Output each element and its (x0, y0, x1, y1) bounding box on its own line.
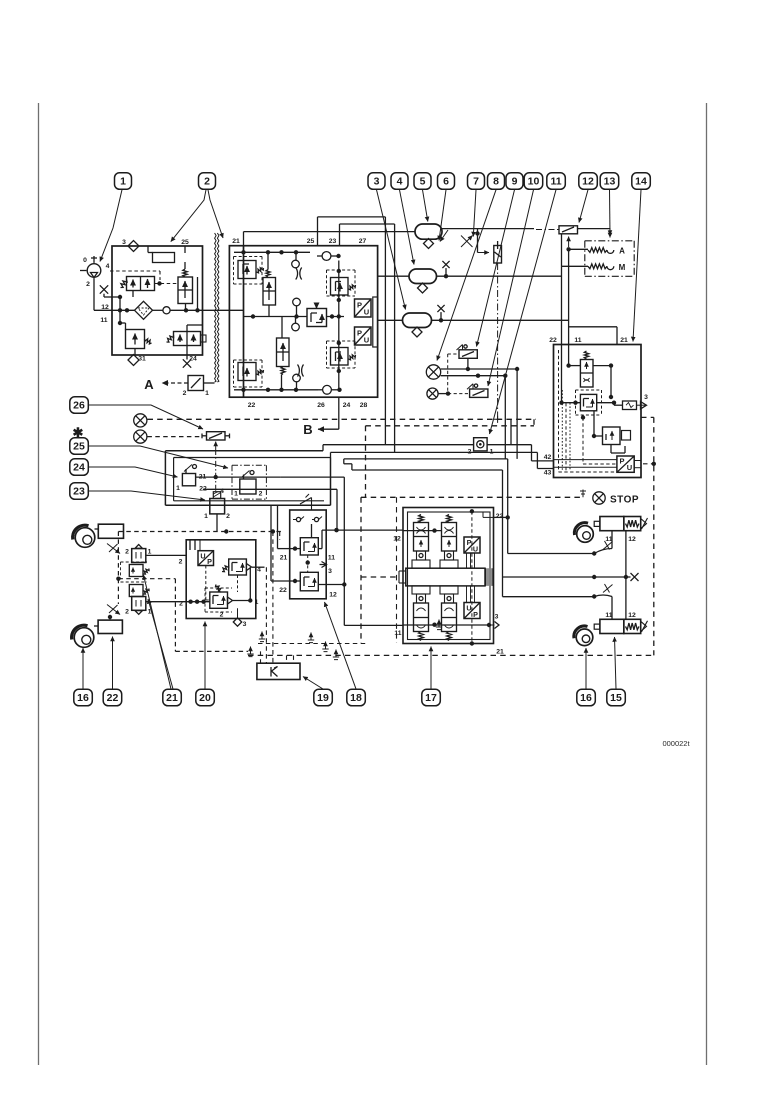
hand control valve 18 box (290, 510, 327, 599)
svg-text:U: U (627, 463, 632, 472)
svg-text:1: 1 (490, 449, 494, 456)
lamp wire upper (441, 367, 520, 371)
bottom inner rail with junctions (234, 388, 318, 392)
17 labels (496, 513, 504, 656)
heater box A/M (13) (585, 228, 634, 276)
coupling output to 42 (487, 419, 553, 461)
labels 18 (279, 555, 337, 599)
relay unit 20 box (186, 540, 256, 619)
front wheel sensor top (73, 524, 124, 547)
supply verticals down to trailer valve (562, 249, 618, 403)
callout 25 (70, 438, 89, 455)
labels 2 1 at A-box (183, 390, 210, 397)
component 12 valve (536, 226, 578, 234)
front wheel sensor bottom (72, 615, 123, 648)
svg-text:U: U (473, 545, 478, 554)
central pressure valve top (263, 252, 276, 316)
svg-text:9: 9 (512, 176, 518, 188)
valve 18 upper section (290, 538, 319, 555)
dashed stub to chassis (634, 461, 656, 468)
protection unit outer box (229, 246, 377, 398)
svg-text:P: P (473, 610, 478, 619)
hand brake switch 24 (176, 465, 207, 493)
svg-text:25: 25 (73, 441, 85, 453)
valve 18 mid port (306, 555, 336, 576)
svg-text:0: 0 (83, 257, 87, 264)
svg-text:22: 22 (549, 337, 557, 344)
throttle top (296, 268, 302, 280)
circuit-2 overflow valve (bottom-left, dashed frame) (234, 360, 264, 387)
svg-text:11: 11 (550, 176, 561, 188)
svg-text:B: B (303, 422, 312, 437)
svg-text:1: 1 (176, 485, 180, 492)
svg-text:5: 5 (420, 176, 426, 188)
svg-text:12: 12 (101, 304, 109, 311)
svg-text:1: 1 (205, 390, 209, 397)
low pressure warning lamp (426, 365, 440, 379)
svg-text:P: P (207, 557, 212, 566)
central pressure valve bottom (277, 317, 290, 390)
pump outlet wire (94, 278, 112, 310)
pressure switch 10 (438, 384, 488, 398)
switch drop wires 42/43 (505, 369, 517, 459)
svg-text:3: 3 (495, 614, 499, 621)
svg-text:16: 16 (580, 692, 592, 704)
leader callout 4 (400, 190, 415, 265)
callout 1 (115, 173, 132, 190)
leader callout 12 (579, 190, 588, 223)
relay piston bar (399, 568, 492, 586)
svg-text:15: 15 (610, 692, 622, 704)
antifreeze pump box (188, 376, 204, 391)
control valve middle (559, 390, 616, 420)
callout 18 (347, 689, 366, 706)
circuit-1 overflow valve (top-left, dashed frame) (234, 257, 264, 285)
leader callout 7 (473, 190, 476, 237)
svg-text:U: U (364, 308, 369, 317)
20 port labels (179, 559, 184, 608)
valve 20 upper (222, 559, 265, 575)
callout 15 (607, 689, 626, 706)
component 26 sender (202, 432, 230, 440)
leader callout 1 (100, 190, 122, 262)
U/P sensor 20 (198, 551, 214, 566)
foot valve pilot TR (440, 515, 458, 569)
air tank 5 (415, 224, 442, 249)
filter diamond (135, 301, 153, 319)
svg-text:3: 3 (374, 176, 380, 188)
svg-text:✱: ✱ (73, 425, 84, 440)
tank 5 drain arrow (440, 230, 448, 242)
callout 22 (103, 689, 122, 706)
callout 19 (314, 689, 333, 706)
label 31 (138, 356, 146, 363)
switch 24 wire (196, 475, 281, 479)
leader callout 16 bottom-left (82, 648, 84, 689)
rear chamber bottom (594, 612, 647, 634)
svg-text:3: 3 (243, 621, 247, 628)
svg-text:24: 24 (343, 402, 351, 409)
arrow into 26 (215, 442, 217, 450)
wear warning lamp (134, 430, 147, 443)
foot valve pilot BL (412, 586, 430, 641)
abs valve top (121, 562, 150, 579)
svg-text:43: 43 (544, 470, 552, 477)
valve21a to unit20 wire (146, 554, 186, 556)
svg-text:2: 2 (259, 491, 263, 498)
svg-text:26: 26 (317, 402, 325, 409)
check circles column (292, 252, 301, 389)
callout 7 (468, 173, 485, 190)
wire W2 over the top (340, 224, 395, 452)
leader callout 19 bottom (303, 677, 323, 690)
svg-text:24: 24 (189, 356, 197, 363)
svg-text:14: 14 (635, 176, 647, 188)
unit drop wires (271, 505, 290, 581)
valve 23 hatch cap (213, 492, 220, 499)
callout 23 (70, 483, 89, 500)
callout 24 (70, 459, 89, 476)
relay K box 19 (257, 663, 300, 679)
leader callout 2 (171, 190, 206, 242)
svg-text:2: 2 (220, 612, 224, 619)
output to block 17 (318, 528, 403, 549)
bottom check valve circle 26 (318, 385, 342, 394)
svg-text:1: 1 (255, 599, 259, 606)
svg-text:19: 19 (317, 692, 329, 704)
stop lamp (580, 490, 639, 506)
callout 26 (70, 397, 89, 414)
svg-text:21: 21 (232, 238, 240, 245)
pressure switch P/U upper (355, 299, 372, 317)
leader callout 11 (490, 190, 557, 434)
svg-text:2: 2 (468, 449, 472, 456)
leader callout 22 bottom (112, 637, 114, 690)
svg-text:20: 20 (199, 692, 211, 704)
test coupling front bottom (107, 605, 120, 615)
svg-text:STOP: STOP (610, 495, 639, 506)
warning lamp 2 (427, 388, 438, 399)
drawing number (662, 739, 690, 748)
wires from 12 to heater (562, 234, 589, 266)
unloader valve (121, 277, 155, 291)
exhaust vent (322, 642, 328, 652)
contacts (293, 517, 322, 538)
circuit-3 valve (top-right, dashed frame) (327, 270, 356, 296)
svg-text:000022t: 000022t (662, 739, 690, 748)
svg-text:22: 22 (496, 513, 504, 520)
svg-text:12: 12 (582, 176, 594, 188)
svg-text:U: U (466, 604, 471, 613)
air tank 3 (403, 313, 432, 337)
big dashed cab box top (366, 417, 654, 425)
rear wheel bottom (574, 626, 593, 646)
leader callout 21 bottom (144, 575, 172, 689)
governor dashed pilot line (110, 271, 178, 286)
svg-text:22: 22 (107, 692, 119, 704)
svg-text:1: 1 (148, 549, 152, 556)
svg-text:6: 6 (443, 176, 449, 188)
bus line c (344, 459, 508, 554)
svg-text:U: U (364, 336, 369, 345)
check valve circle (163, 307, 170, 314)
dashed lamp wire 2 (147, 436, 202, 438)
svg-text:11: 11 (328, 555, 335, 562)
svg-text:13: 13 (604, 176, 616, 188)
callout 20 (196, 689, 215, 706)
svg-text:12: 12 (393, 536, 401, 543)
silencer (148, 246, 175, 263)
bus line b (331, 452, 554, 468)
wire unloader to filter (118, 291, 133, 326)
rear wheel top (574, 523, 593, 543)
callout 10 (524, 173, 543, 190)
svg-text:3: 3 (122, 239, 126, 246)
callout 5 (414, 173, 431, 190)
callout 13 (600, 173, 619, 190)
svg-text:23: 23 (73, 486, 85, 498)
inlet lines 20 (190, 540, 200, 551)
line to pressure regulator 8 (478, 234, 490, 253)
svg-text:12: 12 (628, 612, 636, 619)
dashed drops to relay (266, 532, 279, 664)
exhaust vent (259, 632, 265, 642)
leader callout 26 (88, 405, 203, 429)
svg-text:2: 2 (125, 549, 129, 556)
dashed box around brake unit top (361, 426, 580, 643)
svg-text:4: 4 (397, 176, 403, 188)
intake diamond (128, 241, 139, 252)
arrow into 12 (566, 237, 570, 252)
leader callout 16 bottom-right (585, 648, 587, 689)
callout 8 (488, 173, 505, 190)
callout 16 (74, 689, 93, 706)
svg-text:A: A (144, 377, 154, 392)
pressure switch 9 (457, 345, 478, 372)
dashed stub block17 (361, 497, 399, 643)
test coupling 11 (468, 438, 494, 456)
svg-text:1: 1 (120, 176, 126, 188)
inner dashed plumbing (559, 350, 617, 472)
foot valve 17 inner box (408, 512, 491, 640)
callout 6 (438, 173, 455, 190)
bottom diamond vent (128, 355, 139, 366)
svg-text:21: 21 (166, 692, 178, 704)
leader callout 10 (488, 190, 534, 386)
svg-text:23: 23 (329, 238, 337, 245)
dash-dot drop from 26 (215, 449, 217, 492)
20 bottom vent (233, 608, 246, 628)
brake cylinder valve 21b (125, 597, 152, 616)
center rail (244, 314, 345, 318)
labels 22 11 21 above (549, 337, 628, 344)
leader callout 18 bottom (325, 602, 357, 689)
svg-text:2: 2 (183, 390, 187, 397)
rear chamber top (594, 517, 647, 544)
pressure switch P/U lower (355, 327, 372, 345)
circuit-4 valve (bottom-right, dashed frame) (327, 341, 356, 368)
svg-text:4: 4 (106, 263, 110, 270)
unit lid wire to tank 1 (244, 232, 416, 246)
bus line d (344, 464, 503, 597)
svg-text:21: 21 (620, 337, 628, 344)
output lower (318, 582, 403, 637)
switch 25 dash-dot frame (232, 465, 266, 499)
dashed chassis line D1 (148, 419, 537, 426)
dotted pilot box (562, 390, 570, 471)
test coupling front top (107, 544, 120, 554)
svg-text:1: 1 (148, 609, 152, 616)
trailer valve outer box (554, 345, 642, 478)
wire governor top (184, 246, 186, 269)
A arrow (144, 377, 188, 392)
leader callout 15 bottom (615, 637, 617, 689)
foot valve pilot TL (412, 515, 430, 569)
callout 2 (199, 173, 216, 190)
callout 21 (163, 689, 182, 706)
labels bottom 22 26 24 28 (248, 402, 368, 409)
svg-text:25: 25 (307, 238, 315, 245)
dashed relay feed line (258, 644, 367, 664)
dashed frame around switches (448, 354, 459, 394)
svg-text:2: 2 (226, 513, 230, 520)
drain valve 7 (461, 229, 480, 247)
leader callout 3 (377, 190, 406, 310)
switch 25 (234, 471, 263, 498)
svg-text:22: 22 (279, 587, 287, 594)
callout 9 (506, 173, 523, 190)
svg-text:28: 28 (360, 402, 368, 409)
svg-text:22: 22 (248, 402, 256, 409)
svg-text:A: A (619, 247, 625, 256)
asterisk note mark (73, 425, 84, 440)
big dashed cab box right/bottom (248, 417, 654, 655)
svg-text:3: 3 (644, 394, 648, 401)
svg-text:11: 11 (574, 337, 581, 344)
svg-text:25: 25 (181, 239, 189, 246)
leader callout 5 (423, 190, 428, 222)
port 3 filter and arrow (614, 394, 648, 410)
feed to hand valve lower (274, 489, 339, 532)
17 top wire (403, 528, 442, 532)
leader callout 9 (477, 190, 515, 347)
exhaust vent (247, 647, 253, 657)
leader callout 24 (88, 467, 177, 477)
labels 42 43 (544, 454, 617, 477)
port 22 wire (483, 512, 510, 520)
central distribution valve (307, 303, 327, 327)
svg-text:7: 7 (473, 176, 479, 188)
left page border (38, 103, 40, 1065)
leader callout 20 bottom (204, 622, 206, 690)
callout 12 (579, 173, 598, 190)
lamp wire lower (441, 374, 508, 378)
leader callout 23 (88, 491, 205, 500)
exhaust vent (308, 633, 314, 643)
tank1 right feed line (442, 228, 610, 230)
svg-text:U: U (200, 552, 205, 561)
air pump circle (80, 256, 110, 288)
throttle bottom (298, 365, 304, 377)
leader callout 25 (88, 446, 228, 468)
dashed net left (116, 529, 283, 651)
svg-text:21: 21 (496, 649, 504, 656)
svg-text:P: P (357, 329, 362, 338)
foot valve pilot BR (440, 586, 458, 641)
svg-text:M: M (619, 263, 626, 272)
svg-text:8: 8 (493, 176, 499, 188)
svg-text:42: 42 (544, 454, 552, 461)
svg-text:16: 16 (77, 692, 89, 704)
sensing dash-dot line (494, 263, 501, 423)
callout 14 (632, 173, 651, 190)
svg-text:P: P (619, 457, 624, 466)
leader callout 14 (633, 190, 641, 342)
svg-text:2: 2 (204, 176, 210, 188)
safety valve 24 (bottom right of block) (167, 325, 207, 368)
17 bottom wire (403, 614, 499, 629)
hand unit inner box (174, 458, 331, 501)
17 dashed center (470, 509, 474, 646)
relay valve top (566, 351, 613, 399)
lever 18 (300, 494, 312, 510)
leader callout 13 (609, 190, 612, 235)
exhaust vent (436, 620, 442, 630)
svg-text:18: 18 (350, 692, 362, 704)
label 24 (189, 356, 197, 363)
air tank 4 (409, 269, 437, 293)
svg-text:10: 10 (528, 176, 540, 188)
governor valve (178, 269, 193, 304)
abs valve bottom (121, 582, 150, 597)
svg-text:2: 2 (86, 281, 90, 288)
trailer P/U switch (617, 456, 634, 472)
bus line a (323, 445, 474, 451)
svg-text:3: 3 (328, 568, 332, 575)
park warning lamp (134, 414, 147, 427)
callout 17 (422, 689, 441, 706)
svg-text:17: 17 (425, 692, 437, 704)
svg-text:21: 21 (280, 555, 288, 562)
wire governor down (186, 277, 198, 310)
U/P sensor 17 bottom (464, 586, 480, 619)
svg-text:12: 12 (628, 536, 636, 543)
tank4 wires (378, 261, 562, 279)
svg-text:31: 31 (138, 356, 146, 363)
label 3 (122, 239, 126, 246)
svg-text:24: 24 (73, 462, 85, 474)
leader callout 8 (437, 190, 496, 361)
top inner rail with junctions (234, 250, 310, 254)
valve21b to unit20 wire (146, 600, 210, 604)
hand unit outer box (165, 451, 330, 506)
svg-text:26: 26 (73, 400, 85, 412)
foot valve 17 outer box (403, 508, 494, 644)
X drain below pump (100, 285, 122, 299)
compressor unit outer box (112, 246, 203, 355)
tank3 wires (378, 305, 569, 323)
valve 23 (204, 499, 230, 532)
svg-text:11: 11 (100, 317, 107, 324)
svg-text:1: 1 (234, 491, 238, 498)
svg-text:11: 11 (394, 630, 401, 637)
main line through filter (112, 308, 244, 312)
valve20 output junction (233, 567, 259, 606)
wire W1 over the top (318, 217, 386, 445)
labels 12 11 (100, 304, 109, 324)
20 inner dashes (205, 566, 238, 613)
svg-text:2: 2 (179, 559, 183, 566)
